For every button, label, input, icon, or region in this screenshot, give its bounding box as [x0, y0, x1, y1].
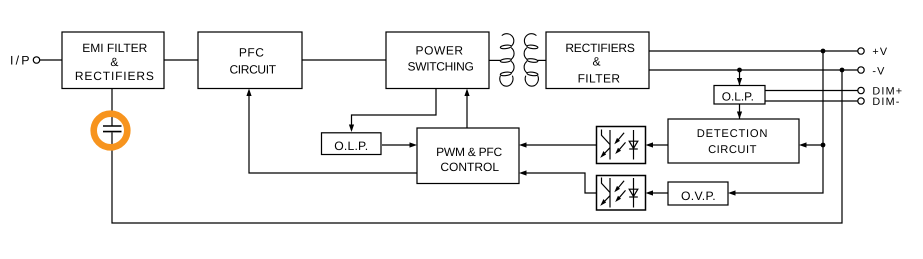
block OLP right [714, 86, 765, 105]
terminal I/P [33, 57, 39, 63]
svg-text:RECTIFIERS: RECTIFIERS [565, 41, 635, 55]
junction dot +V [821, 49, 826, 54]
wire transformer secondary to RECTIFIERS [538, 59, 546, 61]
arrowhead into PWM right upper [519, 142, 527, 147]
label RECTIFIERS & FILTER [565, 41, 635, 86]
optocoupler U1 phototransistor [602, 130, 611, 160]
svg-text:PWM & PFC: PWM & PFC [436, 145, 502, 159]
svg-text:-V: -V [872, 66, 885, 78]
transformer T1 secondary winding [524, 34, 538, 87]
wire DETECTION to opto U1 [648, 144, 668, 146]
svg-text:O.L.P.: O.L.P. [722, 90, 754, 104]
wire POWER SWITCHING to transformer primary [489, 59, 500, 61]
arrowhead into POWER bottom [464, 89, 469, 97]
svg-text:PFC: PFC [239, 46, 265, 60]
block PWM & PFC CONTROL [417, 128, 519, 184]
arrowhead into opto U2 right [646, 190, 654, 195]
svg-text:+V: +V [872, 46, 888, 58]
wire -V junction down to bottom feedback [112, 70, 842, 223]
svg-text:&: & [592, 55, 600, 69]
svg-text:DETECTION: DETECTION [697, 128, 768, 140]
block POWER SWITCHING [386, 32, 489, 89]
wire EMI to PFC [164, 59, 198, 61]
svg-text:CONTROL: CONTROL [440, 160, 499, 174]
wire PWM left to PFC bottom [249, 91, 417, 173]
label EMI FILTER & RECTIFIERS [75, 41, 155, 83]
optocoupler U2 emitter arrow [600, 199, 606, 206]
capacitor C1 plates [103, 126, 122, 132]
arrowhead into DETECTION top [737, 112, 742, 120]
block PFC CIRCUIT [198, 32, 302, 89]
svg-text:O.L.P.: O.L.P. [334, 139, 368, 153]
optocoupler U1 emitter arrow [600, 151, 606, 158]
optocoupler U2 LED [629, 178, 638, 208]
arrowhead into opto U1 right [646, 142, 654, 147]
wire POWER SWITCHING bottom to OLP left [352, 89, 437, 131]
junction dot detection branch [821, 143, 826, 148]
wire RECTIFIERS to +V terminal [649, 50, 858, 52]
wire OLP right bottom to DETECTION top [739, 104, 741, 119]
arrowhead into OVP right [728, 190, 736, 195]
svg-text:POWER: POWER [416, 44, 464, 58]
svg-text:O.V.P.: O.V.P. [681, 189, 716, 203]
optocoupler U2 light arrows [617, 181, 626, 200]
terminal DIM+ [858, 87, 864, 93]
wire opto U2 to PWM [522, 173, 597, 193]
arrowhead into PWM right lower [519, 170, 527, 175]
svg-text:CIRCUIT: CIRCUIT [229, 63, 276, 77]
wire +V junction down to OVP and DETECTION [731, 51, 824, 193]
terminal -V [858, 67, 864, 73]
label PFC CIRCUIT [229, 46, 276, 77]
svg-text:&: & [110, 55, 118, 69]
wire -V to OLP right top [739, 70, 741, 85]
optocoupler U2 box [597, 176, 646, 211]
optocoupler U2 phototransistor [602, 178, 611, 208]
optocoupler U1 light arrows [617, 133, 626, 152]
wire OLP right to DIM+ terminal [765, 90, 858, 92]
wire junction to DETECTION right [802, 144, 824, 146]
arrowhead into DETECTION right [799, 142, 807, 147]
orange highlight circle [94, 114, 128, 148]
block OLP left [322, 133, 382, 155]
terminal DIM- [858, 98, 864, 104]
arrowhead into PWM left [410, 142, 418, 147]
block RECTIFIERS & FILTER [546, 32, 649, 89]
wire PFC to POWER SWITCHING [302, 59, 386, 61]
wire PWM top to POWER SWITCHING bottom [466, 91, 468, 128]
svg-text:RECTIFIERS: RECTIFIERS [75, 69, 155, 83]
block EMI FILTER & RECTIFIERS [62, 32, 164, 89]
arrowhead into OLP left top [349, 125, 354, 133]
junction dot -V at feedback [840, 68, 845, 73]
label PWM & PFC CONTROL [436, 145, 502, 174]
svg-text:FILTER: FILTER [578, 71, 621, 85]
optocoupler U1 LED [629, 130, 638, 160]
wire OLP right to DIM- terminal [765, 100, 858, 102]
svg-text:CIRCUIT: CIRCUIT [708, 144, 757, 156]
block OVP [668, 182, 728, 205]
svg-text:EMI FILTER: EMI FILTER [82, 41, 147, 55]
svg-text:SWITCHING: SWITCHING [408, 60, 474, 74]
junction dot -V at OLP [737, 68, 742, 73]
wire RECTIFIERS to -V terminal [649, 69, 858, 71]
wire OLP left to PWM [382, 144, 414, 146]
arrowhead into PFC bottom [246, 89, 251, 97]
wire opto U1 to PWM [522, 144, 597, 146]
svg-text:I/P: I/P [10, 53, 32, 67]
block DETECTION CIRCUIT [668, 119, 799, 163]
wire EMI bottom to capacitor [111, 89, 113, 126]
optocoupler U1 box [597, 127, 646, 164]
svg-text:DIM-: DIM- [872, 96, 900, 108]
label POWER SWITCHING [408, 44, 474, 74]
transformer T1 primary winding [500, 34, 514, 87]
arrowhead into OLP right top [737, 78, 742, 86]
terminal +V [858, 48, 864, 54]
wire I/P to EMI [40, 59, 62, 61]
wire OVP to opto U2 [648, 192, 668, 194]
label DETECTION CIRCUIT [697, 128, 768, 156]
